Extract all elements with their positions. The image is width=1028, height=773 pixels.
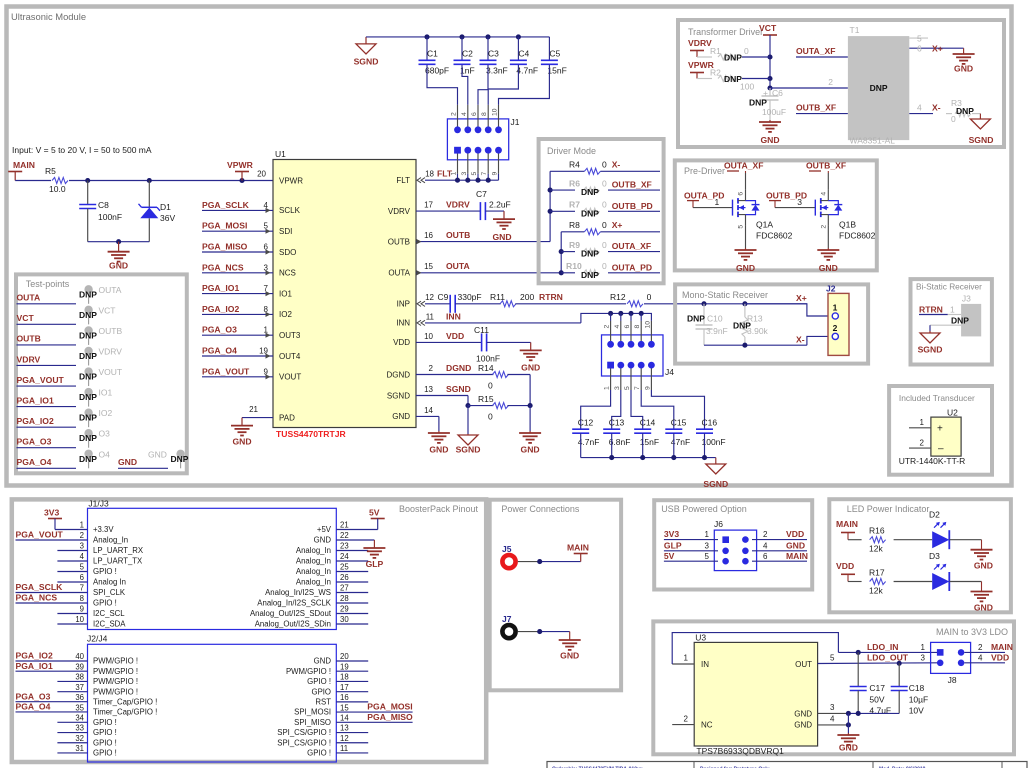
svg-text:0: 0 — [647, 292, 652, 302]
svg-text:100uF: 100uF — [762, 107, 786, 117]
svg-text:PGA_VOUT: PGA_VOUT — [202, 366, 250, 376]
svg-text:SPI_CLK: SPI_CLK — [93, 588, 126, 597]
U1 pin VDRV (pin 17) — [388, 207, 411, 216]
capacitor C13 6.8nF — [603, 418, 630, 458]
J2/J4 pin 35 Timer_Cap/GPIO ! — [75, 703, 157, 716]
net SGND top-left — [354, 37, 379, 67]
svg-text:2: 2 — [828, 77, 833, 87]
svg-text:SGND: SGND — [387, 391, 410, 400]
capacitor C4 4.7nF — [510, 37, 538, 76]
svg-text:VDRV: VDRV — [17, 354, 41, 364]
junction C17 top — [856, 650, 861, 655]
svg-text:1: 1 — [920, 418, 925, 427]
svg-text:DNP: DNP — [724, 53, 742, 63]
wire DGND — [416, 363, 493, 375]
resistor R5 — [45, 166, 68, 194]
svg-text:PGA_NCS: PGA_NCS — [16, 593, 58, 603]
U1 pin IO1 — [202, 283, 292, 298]
wire OUTA bus — [560, 232, 562, 273]
wire C2 to J1 — [462, 65, 468, 105]
svg-text:Analog_In: Analog_In — [296, 578, 331, 587]
svg-text:VCT: VCT — [99, 305, 116, 315]
svg-text:SPI_CS/GPIO !: SPI_CS/GPIO ! — [277, 738, 331, 747]
ground GND pin14 — [428, 431, 450, 455]
svg-text:R2: R2 — [710, 68, 721, 78]
svg-text:0: 0 — [602, 160, 607, 170]
svg-text:1: 1 — [684, 654, 689, 663]
svg-text:VDRV: VDRV — [99, 346, 123, 356]
U1 pin SDI — [202, 221, 292, 236]
svg-text:6: 6 — [624, 325, 631, 329]
Pre-Driver frame — [675, 160, 877, 270]
svg-text:4: 4 — [830, 715, 835, 724]
Bi-Static Receiver frame — [911, 279, 992, 364]
svg-text:3V3: 3V3 — [44, 508, 60, 518]
svg-text:Q1B: Q1B — [839, 220, 856, 230]
svg-text:DNP: DNP — [870, 83, 888, 93]
U1 pin FLT (pin 18) — [396, 176, 410, 185]
wire J6 row 3-4 — [664, 550, 807, 552]
svg-text:GPIO !: GPIO ! — [307, 749, 331, 758]
svg-text:5: 5 — [624, 386, 631, 390]
wire C7 to GND — [485, 210, 504, 212]
junction R10 — [559, 270, 564, 275]
svg-text:DNP: DNP — [79, 413, 97, 423]
svg-text:5V: 5V — [664, 551, 675, 561]
svg-text:14: 14 — [424, 406, 433, 415]
ground GND under C7 — [492, 211, 515, 242]
svg-text:OUT4: OUT4 — [279, 352, 301, 361]
svg-text:TUSS4470TRTJR: TUSS4470TRTJR — [276, 429, 347, 439]
svg-text:DNP: DNP — [79, 289, 97, 299]
svg-text:SGND: SGND — [446, 384, 471, 394]
wire INP pin12 — [417, 292, 450, 306]
junction bus C1 — [424, 34, 429, 39]
svg-text:2: 2 — [763, 530, 768, 539]
Test-points frame — [16, 274, 187, 473]
svg-text:J3: J3 — [962, 294, 971, 304]
J1/J3 pin 8 GPIO ! — [80, 594, 117, 607]
svg-text:PGA_O4: PGA_O4 — [202, 346, 237, 356]
svg-text:D1: D1 — [160, 202, 171, 212]
svg-text:UTR-1440K-TT-R: UTR-1440K-TT-R — [899, 456, 966, 466]
svg-text:Pre-Driver: Pre-Driver — [684, 166, 725, 176]
svg-text:8: 8 — [634, 325, 641, 329]
ground GND under C11 — [520, 342, 542, 372]
svg-text:5V: 5V — [369, 508, 380, 518]
wire J7 to GND — [518, 632, 570, 640]
junction C8 node — [85, 178, 90, 183]
svg-text:GND: GND — [148, 449, 167, 459]
svg-text:PGA_MISO: PGA_MISO — [367, 712, 413, 722]
U3 pin OUT to J8 pin3 — [795, 653, 937, 670]
net label PGA_NCS row8 — [16, 593, 88, 603]
svg-text:J8: J8 — [948, 675, 957, 685]
svg-text:DNP: DNP — [79, 392, 97, 402]
connector J5 banana jack — [502, 544, 516, 568]
svg-text:SGND: SGND — [354, 57, 379, 67]
svg-text:4: 4 — [80, 552, 85, 561]
capacitor C16 100nF — [696, 418, 726, 458]
svg-text:C18: C18 — [909, 683, 925, 693]
capacitor C8 — [79, 181, 122, 242]
svg-text:R12: R12 — [610, 292, 626, 302]
J2/J4 pin 37 PWM/GPIO ! — [57, 683, 138, 696]
svg-text:Analog_Out/I2S_SDin: Analog_Out/I2S_SDin — [255, 620, 331, 629]
wire J4 to C12 — [581, 390, 611, 429]
wire C5 to J1 — [499, 65, 550, 105]
svg-text:VPWR: VPWR — [227, 160, 254, 170]
svg-text:10: 10 — [424, 332, 433, 341]
svg-text:SGND: SGND — [456, 445, 481, 455]
svg-text:12k: 12k — [869, 544, 883, 554]
resistor R7 DNP 0 OUTB_PD — [550, 200, 660, 219]
J1/J3 pin 27 Analog_In/I2S_WS — [265, 584, 368, 597]
BoosterPack Pinout frame — [12, 499, 486, 762]
svg-text:D2: D2 — [929, 509, 940, 519]
J2/J4 pin 36 Timer_Cap/GPIO ! — [75, 693, 157, 706]
Transformer Driver frame — [678, 20, 1004, 147]
svg-text:0: 0 — [602, 220, 607, 230]
svg-text:GND: GND — [521, 445, 540, 455]
svg-text:IO1: IO1 — [279, 289, 292, 298]
svg-text:DNP: DNP — [79, 330, 97, 340]
svg-text:OUTA: OUTA — [388, 269, 410, 278]
svg-text:28: 28 — [340, 594, 349, 603]
wire J8 pin4 VDD — [964, 653, 1009, 663]
svg-text:RST: RST — [315, 697, 331, 706]
power flag VPWR — [227, 160, 254, 181]
svg-text:12k: 12k — [869, 586, 883, 596]
svg-text:C4: C4 — [518, 49, 529, 59]
svg-text:OUTB_XF: OUTB_XF — [612, 180, 652, 190]
svg-text:5: 5 — [738, 225, 745, 229]
svg-text:GPIO !: GPIO ! — [93, 567, 117, 576]
svg-text:C8: C8 — [98, 200, 109, 210]
svg-text:2: 2 — [684, 714, 689, 723]
svg-text:J6: J6 — [714, 519, 723, 529]
J2/J4 pin 33 GPIO ! — [57, 724, 116, 737]
svg-text:13: 13 — [424, 385, 433, 394]
svg-text:C6: C6 — [772, 88, 783, 98]
svg-text:C15: C15 — [671, 418, 687, 428]
svg-text:GND: GND — [314, 536, 332, 545]
junction J5 — [537, 559, 542, 564]
svg-text:C9: C9 — [438, 292, 449, 302]
svg-text:15: 15 — [424, 262, 433, 271]
Power Connections frame — [490, 500, 621, 691]
svg-text:+: + — [763, 88, 768, 98]
led D3 with resistor R17 — [836, 551, 993, 612]
Mono-Static Receiver frame — [675, 284, 868, 363]
transducer U2 UTR-1440K-TT-R — [931, 407, 961, 456]
resistor R14 0 — [478, 363, 508, 391]
resistor R2 DNP 100 — [697, 68, 770, 92]
svg-text:4: 4 — [917, 103, 922, 113]
svg-text:0: 0 — [602, 240, 607, 250]
net label 3V3 J6 pin 1 — [664, 529, 710, 539]
J1/J3 pin 26 Analog_In — [296, 573, 368, 586]
U1 pin SCLK — [202, 200, 301, 215]
junction FLT bus — [455, 178, 460, 183]
svg-text:+: + — [937, 424, 943, 435]
svg-text:PGA_O4: PGA_O4 — [16, 702, 51, 712]
svg-text:PGA_NCS: PGA_NCS — [202, 262, 244, 272]
svg-text:2: 2 — [920, 438, 925, 447]
svg-text:31: 31 — [75, 744, 84, 753]
svg-text:GND: GND — [954, 64, 973, 74]
svg-text:USB Powered Option: USB Powered Option — [661, 504, 747, 514]
svg-text:GPIO !: GPIO ! — [93, 738, 117, 747]
svg-text:X-: X- — [932, 103, 941, 113]
svg-text:1: 1 — [921, 643, 926, 652]
svg-text:VDD: VDD — [836, 561, 854, 571]
capacitor C10 DNP 3.9nF — [687, 304, 728, 345]
svg-text:LP_UART_RX: LP_UART_RX — [93, 546, 144, 555]
svg-text:J4: J4 — [665, 367, 674, 377]
svg-text:Included Transducer: Included Transducer — [899, 393, 975, 403]
svg-text:2: 2 — [80, 531, 84, 540]
J2/J4 pin 19 PWM/GPIO ! — [286, 662, 368, 675]
svg-text:OUTB: OUTB — [17, 334, 41, 344]
svg-text:OUT: OUT — [795, 660, 812, 669]
transistor Q1A FDC8602 — [684, 173, 793, 241]
svg-text:SDO: SDO — [279, 248, 296, 257]
svg-text:GND: GND — [109, 261, 128, 271]
wire C9 to R11 — [455, 303, 501, 305]
wire FLT net to J1 — [417, 174, 499, 183]
junction J4 bus — [608, 311, 613, 321]
svg-text:X+: X+ — [796, 293, 807, 303]
net label PGA_MISO row14 — [336, 712, 413, 722]
svg-text:PWM/GPIO !: PWM/GPIO ! — [93, 657, 138, 666]
svg-text:C3: C3 — [488, 49, 499, 59]
svg-text:SPI_MISO: SPI_MISO — [294, 718, 331, 727]
power flag MAIN — [8, 160, 35, 181]
svg-text:PGA_IO1: PGA_IO1 — [16, 661, 53, 671]
svg-text:0: 0 — [602, 200, 607, 210]
svg-text:PWM/GPIO !: PWM/GPIO ! — [93, 667, 138, 676]
wire C18 bottom to GND rail — [848, 712, 899, 714]
svg-text:100nF: 100nF — [98, 212, 122, 222]
junction R1-VCT — [767, 54, 772, 59]
svg-text:PGA_O3: PGA_O3 — [16, 691, 51, 701]
resistor R3 DNP 0 — [946, 98, 980, 124]
svg-text:+5V: +5V — [317, 525, 332, 534]
svg-text:+3.3V: +3.3V — [93, 525, 114, 534]
svg-text:Analog In: Analog In — [93, 578, 126, 587]
svg-text:6: 6 — [80, 573, 84, 582]
svg-text:C5: C5 — [549, 49, 560, 59]
svg-text:GLP: GLP — [366, 559, 384, 569]
svg-text:PGA_IO2: PGA_IO2 — [16, 651, 53, 661]
U1 pin IO2 — [202, 304, 292, 319]
svg-text:VPWR: VPWR — [279, 176, 303, 185]
capacitor C9 330pF — [450, 292, 481, 313]
ground GND under Q1A — [735, 226, 757, 273]
svg-text:Analog_In: Analog_In — [296, 557, 331, 566]
svg-text:X-: X- — [612, 160, 621, 170]
svg-text:10: 10 — [644, 321, 651, 329]
J1 pin numbers 2 4 6 8 10 — [451, 108, 499, 116]
junction J7 — [537, 629, 542, 634]
svg-text:5: 5 — [830, 653, 835, 662]
svg-text:R4: R4 — [569, 160, 580, 170]
svg-text:VDD: VDD — [991, 653, 1009, 663]
wire C4 to J1 — [488, 65, 518, 105]
svg-text:17: 17 — [424, 201, 433, 210]
svg-text:11: 11 — [340, 744, 348, 753]
wire C8 D1 bottom — [88, 241, 150, 243]
svg-text:R15: R15 — [478, 394, 494, 404]
svg-text:C11: C11 — [474, 325, 489, 335]
wire J6 row 1-2 — [664, 539, 807, 541]
svg-text:PGA_MISO: PGA_MISO — [202, 242, 248, 252]
svg-text:Power Connections: Power Connections — [501, 504, 580, 514]
wire INN pin11 — [417, 311, 581, 325]
J1/J3 pin 21 +5V — [317, 521, 349, 534]
connector J4 — [602, 321, 675, 390]
connector J6 — [714, 519, 757, 571]
J2/J4 pin 31 GPIO ! — [57, 744, 116, 757]
svg-text:C2: C2 — [462, 49, 473, 59]
svg-text:10: 10 — [75, 615, 84, 624]
svg-text:34: 34 — [75, 714, 84, 723]
svg-text:SPI_CS/GPIO !: SPI_CS/GPIO ! — [277, 728, 331, 737]
U1 pin GND (pin 14) — [392, 412, 410, 421]
wire VCT to T1 pin2 — [770, 77, 848, 88]
junction filter bus — [609, 455, 614, 460]
transistor Q1B FDC8602 — [766, 173, 876, 241]
net label PGA_O4 row35 — [16, 702, 88, 712]
svg-text:50V: 50V — [869, 694, 884, 704]
svg-text:IO1: IO1 — [99, 388, 113, 398]
svg-text:LED Power Indicator: LED Power Indicator — [847, 504, 930, 514]
T1 pin 6 to X+ — [909, 44, 963, 54]
svg-text:R10: R10 — [566, 261, 582, 271]
net label MAIN J6 pin 6 — [763, 551, 808, 561]
svg-text:5: 5 — [471, 172, 478, 176]
net label GND J6 pin 4 — [763, 540, 805, 550]
note input spec — [12, 145, 152, 155]
junction J4 bus — [618, 311, 623, 321]
wire to GND symbol — [529, 406, 531, 431]
wire LDO_IN to J8 — [838, 642, 937, 652]
svg-text:GND: GND — [974, 561, 993, 571]
test point PGA_IO2 — [17, 408, 113, 427]
svg-text:VOUT: VOUT — [279, 373, 301, 382]
svg-text:DNP: DNP — [171, 454, 189, 464]
svg-text:PGA_O3: PGA_O3 — [202, 325, 237, 335]
svg-text:0: 0 — [488, 412, 493, 422]
svg-text:40: 40 — [75, 652, 84, 661]
svg-text:3: 3 — [921, 654, 926, 663]
label UTR-1440K-TT-R — [899, 456, 966, 466]
J1/J3 pin 22 GND — [314, 531, 349, 544]
T1 pin 5 stub — [909, 34, 928, 44]
zener diode D1 36V — [139, 181, 176, 242]
power flag 5V — [336, 508, 384, 530]
svg-text:GND: GND — [794, 721, 812, 730]
J1/J3 pin 10 I2C_SDA — [57, 615, 126, 628]
svg-text:FDC8602: FDC8602 — [839, 231, 876, 241]
U1 pin OUTB (pin 16) — [388, 237, 410, 246]
svg-text:Analog_In: Analog_In — [296, 546, 331, 555]
svg-text:C12: C12 — [578, 418, 594, 428]
svg-text:RTRN: RTRN — [539, 292, 563, 302]
svg-text:C14: C14 — [640, 418, 656, 428]
capacitor C6 DNP 100uF — [749, 88, 786, 120]
capacitor C11 100nF — [474, 325, 500, 364]
svg-text:DNP: DNP — [581, 208, 599, 218]
U3 pin IN — [672, 654, 709, 669]
svg-text:VDRV: VDRV — [446, 200, 470, 210]
net label RTRN to J3 — [919, 304, 961, 314]
net label PGA_IO1 row39 — [16, 661, 88, 671]
svg-text:32: 32 — [75, 734, 84, 743]
svg-text:30: 30 — [340, 615, 349, 624]
svg-text:OUTA_XF: OUTA_XF — [796, 46, 835, 56]
svg-text:GND: GND — [560, 651, 579, 661]
svg-text:6: 6 — [738, 192, 745, 196]
net label OUTA_XF pre-driver — [724, 161, 763, 173]
svg-text:PGA_VOUT: PGA_VOUT — [16, 530, 64, 540]
svg-text:T1: T1 — [850, 25, 860, 35]
U1 pin PAD, pin 21 — [242, 405, 295, 422]
U1 pin OUT3 — [202, 325, 301, 340]
svg-text:GND: GND — [492, 232, 511, 242]
junction VPWR node — [239, 178, 244, 183]
svg-text:17: 17 — [340, 683, 349, 692]
svg-text:PGA_O3: PGA_O3 — [17, 437, 52, 447]
svg-text:35: 35 — [75, 703, 84, 712]
U1 pin NCS — [202, 262, 296, 277]
svg-text:GND: GND — [521, 363, 540, 373]
junction R15 left — [465, 403, 470, 408]
svg-text:GND: GND — [736, 263, 755, 273]
svg-text:PGA_MOSI: PGA_MOSI — [202, 221, 247, 231]
J1/J3 pin 25 Analog_In — [296, 563, 368, 576]
J2/J4 pin 16 RST — [315, 693, 368, 706]
svg-text:BoosterPack Pinout: BoosterPack Pinout — [399, 504, 479, 514]
MAIN to 3V3 LDO frame — [653, 621, 1014, 754]
U1 pin SDO — [202, 242, 296, 257]
svg-text:OUTA: OUTA — [446, 261, 470, 271]
svg-text:X+: X+ — [932, 44, 943, 54]
J1/J3 pin 6 Analog In — [57, 573, 126, 586]
svg-text:OUTB_XF: OUTB_XF — [796, 103, 836, 113]
svg-text:GPIO !: GPIO ! — [93, 718, 117, 727]
svg-text:1: 1 — [705, 530, 710, 539]
svg-text:GND: GND — [118, 457, 137, 467]
svg-text:DNP: DNP — [79, 351, 97, 361]
ground GND right of R15 — [519, 431, 541, 455]
junction R7 — [548, 209, 553, 214]
wire J4 to C14 — [631, 390, 643, 429]
svg-text:SPI_MOSI: SPI_MOSI — [294, 708, 331, 717]
wire SGND filter bus — [581, 457, 716, 459]
capacitor C18 10uF 10V — [891, 663, 929, 715]
svg-text:DNP: DNP — [581, 270, 599, 280]
junction FLT bus — [486, 178, 491, 183]
ground SGND filter — [703, 458, 728, 489]
junction R13 top — [742, 301, 747, 306]
svg-text:DNP: DNP — [79, 454, 97, 464]
svg-text:19: 19 — [259, 347, 268, 356]
USB Powered Option frame — [654, 500, 812, 589]
J1/J3 pin 30 Analog_Out/I2S_SDin — [255, 615, 368, 628]
wire J4 to C13 — [612, 390, 621, 429]
